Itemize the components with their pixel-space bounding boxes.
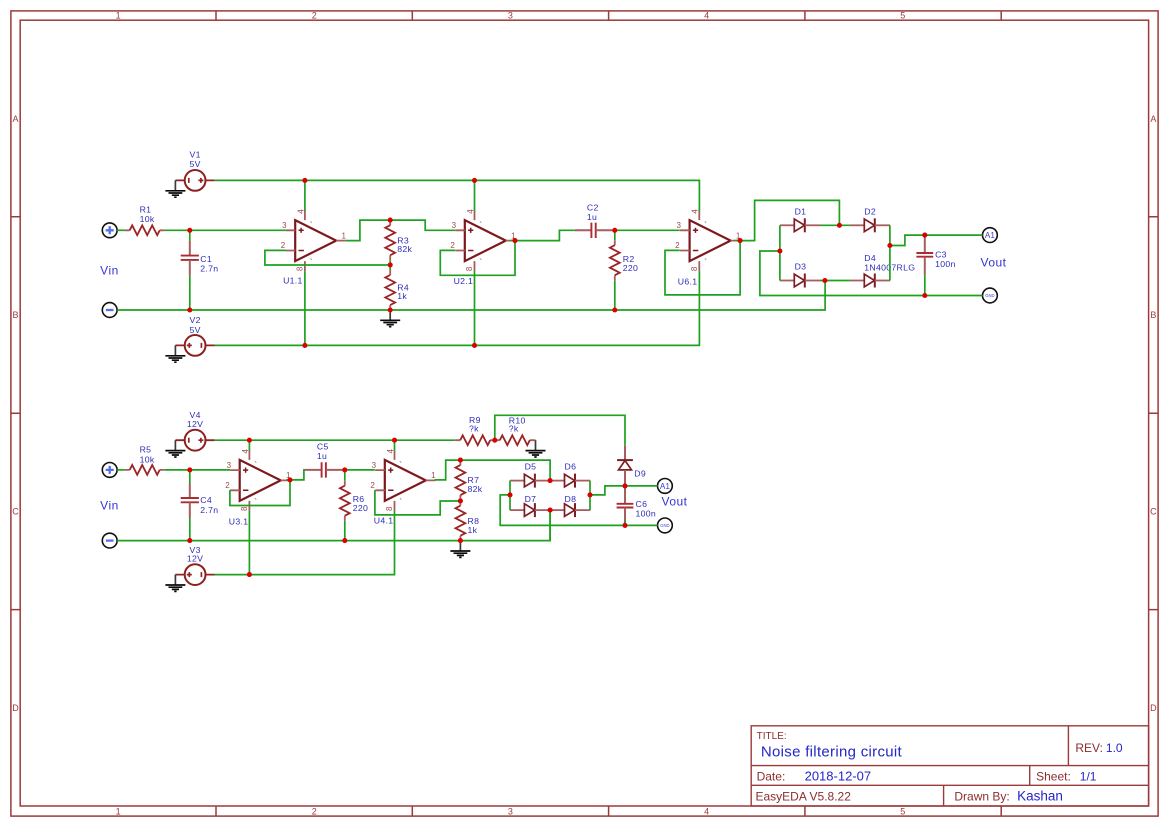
resistor R8 — [456, 501, 466, 541]
diode D2 — [850, 218, 890, 232]
junction lower bridge left node — [507, 492, 512, 497]
svg-text:5V: 5V — [189, 325, 200, 335]
resistor R2 — [610, 240, 620, 280]
capacitor C1 — [181, 241, 199, 276]
diode D6 — [550, 474, 590, 488]
ground at R10 — [526, 440, 546, 457]
resistor R10 — [495, 435, 535, 445]
junction dots circuit1 — [187, 178, 927, 348]
junction C3 bottom / GND rail — [922, 293, 927, 298]
svg-text:1/1: 1/1 — [1080, 770, 1097, 784]
diode D7 — [510, 503, 550, 517]
CIRCUIT1 — [100, 150, 1006, 362]
capacitor C3 — [916, 235, 933, 275]
wire R9/R10 node to D9 top — [495, 415, 625, 445]
junction D7/D8 node — [548, 508, 553, 513]
wire U4.1 feedback to R7/R8 node — [375, 490, 461, 515]
terminal GND lower — [658, 518, 673, 533]
svg-text:1k: 1k — [468, 525, 478, 535]
wire Vin- rail to D3/D4 node — [117, 281, 825, 311]
svg-text:U1.1: U1.1 — [283, 275, 303, 285]
diode D9 — [617, 445, 633, 486]
link R10 to ground — [534, 439, 537, 441]
svg-text:C5: C5 — [317, 442, 329, 452]
op-amp U2.1 — [450, 209, 516, 271]
svg-text:D: D — [1150, 703, 1157, 713]
svg-text:R5: R5 — [140, 444, 152, 454]
svg-text:U3.1: U3.1 — [229, 517, 249, 527]
svg-text:82k: 82k — [468, 484, 483, 494]
wire C5 to R6 and U4.1 pin3 — [345, 469, 375, 471]
junction R8 bottom / Vin- rail — [458, 538, 463, 543]
diode D8 — [550, 503, 590, 517]
ground at V2 — [165, 345, 185, 362]
junction C3 top — [922, 233, 927, 238]
wire U3.1 pin8 down — [248, 511, 250, 575]
wire rectifier output to C3 and A1 terminal — [890, 235, 983, 245]
svg-text:100n: 100n — [636, 508, 657, 518]
svg-text:Vin: Vin — [100, 498, 119, 512]
wire R3 bottom to R4 top — [389, 260, 391, 270]
svg-text:1.0: 1.0 — [1106, 741, 1123, 755]
terminal Vin- — [102, 303, 117, 318]
junction D3/D4 node — [822, 278, 827, 283]
svg-text:?k: ?k — [509, 423, 519, 433]
junction lower bridge top mid D5/D6 — [548, 478, 553, 483]
svg-text:V2: V2 — [189, 315, 200, 325]
svg-text:Kashan: Kashan — [1017, 788, 1063, 803]
junction V3 rail / U3.1 pin8 — [247, 572, 252, 577]
svg-text:1u: 1u — [317, 451, 327, 461]
junction R5-C4-U3.1 — [187, 467, 192, 472]
junction R3/R4 feedback node — [388, 262, 393, 267]
svg-text:1k: 1k — [397, 291, 407, 301]
ground at R4 — [380, 310, 400, 327]
svg-text:C4: C4 — [200, 495, 212, 505]
wire lower bridge right vertical D6-D8 — [589, 481, 591, 511]
ground at V4 — [165, 440, 185, 457]
diode D4 — [850, 274, 890, 288]
wire C1 bottom — [189, 276, 191, 310]
svg-text:D9: D9 — [634, 469, 646, 479]
terminal Vin+ — [102, 223, 117, 238]
svg-text:Date:: Date: — [757, 770, 786, 784]
wire U3.1 feedback loop — [230, 480, 290, 506]
resistor R5 — [125, 465, 165, 475]
svg-text:Vin: Vin — [100, 264, 119, 278]
wire U3.1 output to C5 — [286, 470, 305, 480]
wire R2 bottom — [614, 280, 616, 310]
svg-text:82k: 82k — [397, 244, 412, 254]
junction bridge top mid D1/D2 — [837, 223, 842, 228]
junction top rail / U2.1 pin4 — [472, 178, 477, 183]
diode D1 — [780, 218, 820, 232]
svg-text:B: B — [1150, 310, 1156, 320]
junction R1-C1-U1.1 — [187, 228, 192, 233]
wire U2.1 feedback loop — [440, 241, 515, 276]
junction lower bridge right node — [587, 492, 592, 497]
resistor R9 — [455, 435, 495, 445]
ground at R8 — [450, 541, 470, 558]
wire C4 top — [189, 470, 191, 483]
capacitor C2 — [575, 223, 615, 238]
svg-text:4: 4 — [704, 11, 709, 21]
junction C2 / R2 — [612, 228, 617, 233]
junction U3.1 output — [287, 477, 292, 482]
svg-text:U2.1: U2.1 — [454, 276, 474, 286]
op-amp U4.1 — [370, 449, 436, 511]
svg-text:Noise filtering circuit: Noise filtering circuit — [761, 744, 903, 761]
junction top rail / U1.1 pin4 — [302, 178, 307, 183]
junction dots circuit2 — [187, 438, 627, 577]
wire C4 bottom — [189, 518, 191, 541]
diode D5 — [510, 474, 550, 488]
svg-text:?k: ?k — [469, 423, 479, 433]
svg-text:5V: 5V — [189, 159, 200, 169]
junction rectifier output node — [887, 243, 892, 248]
wire U3.1 pin4 drop — [248, 440, 250, 450]
terminal A1 lower — [658, 479, 673, 494]
wire C2 to R2 and U6.1 pin3 — [615, 229, 680, 231]
junction D9/C6/A1 node — [622, 483, 627, 488]
junction R6 bottom / Vin- rail — [342, 538, 347, 543]
wire Vin+ terminal to R5 — [117, 469, 125, 471]
svg-text:C2: C2 — [587, 202, 599, 212]
wire Vin- rail to D7/D8 node — [117, 510, 550, 540]
op-amp U6.1 — [675, 209, 741, 271]
wire C6 bottom — [624, 521, 626, 526]
junction Vin- / C4 — [187, 538, 192, 543]
svg-text:D3: D3 — [795, 262, 807, 272]
svg-text:TITLE:: TITLE: — [757, 731, 787, 742]
junction V4 rail / U3.1 pin4 — [247, 438, 252, 443]
wire U4.1 pin4 drop — [394, 440, 396, 450]
voltage source V3 — [175, 564, 214, 585]
wire D7/D8 node down to Vin- rail — [549, 510, 551, 540]
CIRCUIT2 — [100, 410, 687, 591]
svg-text:10k: 10k — [140, 214, 155, 224]
svg-text:A1: A1 — [660, 482, 670, 491]
svg-text:1: 1 — [116, 11, 121, 21]
op-amp U3.1 — [225, 449, 291, 511]
svg-text:Sheet:: Sheet: — [1036, 770, 1071, 784]
wire V2 rail to U6.1 pin8 — [215, 271, 700, 345]
svg-text:U6.1: U6.1 — [678, 277, 698, 287]
junction R2 bottom / Vin- rail — [612, 307, 617, 312]
terminal GND — [983, 288, 998, 303]
svg-text:C: C — [1150, 507, 1157, 517]
svg-text:100n: 100n — [935, 259, 956, 269]
capacitor C5 — [305, 462, 345, 477]
svg-text:D5: D5 — [525, 462, 537, 472]
wire U1.1 output to R3 top and U2.1 pin3 — [346, 220, 455, 241]
junction R7/R8 feedback node — [458, 498, 463, 503]
wire U2.1 output to C2 — [510, 230, 575, 240]
svg-text:5: 5 — [900, 11, 905, 21]
svg-text:2: 2 — [312, 11, 317, 21]
svg-text:D1: D1 — [795, 206, 807, 216]
svg-text:220: 220 — [353, 503, 368, 513]
wire U2.1 pin8 down — [474, 271, 476, 345]
wire U1.1 pin8 down — [304, 271, 306, 345]
wire V3 rail to U4.1 pin8 — [215, 511, 395, 575]
wire C3 bottom — [924, 275, 926, 296]
voltage source V4 — [175, 430, 214, 451]
terminal Vin- lower — [102, 533, 117, 548]
wire Vin+ terminal to R1 — [117, 229, 125, 231]
junction V2 rail / U1.1 pin8 — [302, 343, 307, 348]
svg-text:GND: GND — [985, 293, 994, 298]
svg-text:B: B — [12, 310, 18, 320]
wire U6.1 output to bridge top node — [735, 200, 839, 240]
diode D3 — [780, 274, 820, 288]
svg-text:1u: 1u — [587, 212, 597, 222]
wire R2 top — [614, 230, 616, 240]
svg-text:R1: R1 — [140, 204, 152, 214]
svg-text:10k: 10k — [140, 454, 155, 464]
wire U1.1 pin4 drop — [304, 180, 306, 210]
junction R9/R10 divider node — [492, 438, 497, 443]
capacitor C4 — [181, 483, 199, 518]
wire V+ rail from V1 to U6.1 pin4 — [215, 180, 700, 210]
ground at V3 — [165, 575, 185, 592]
svg-text:2018-12-07: 2018-12-07 — [805, 769, 872, 784]
svg-text:Vout: Vout — [980, 255, 1006, 269]
voltage source V1 — [175, 170, 214, 191]
wire lower rectifier output to D9/C6 node and A1 terminal — [590, 486, 658, 495]
junction V4 rail / U4.1 pin4 — [392, 438, 397, 443]
wire V4 rail to R9 — [215, 439, 455, 441]
wire D3 to D4 — [820, 280, 850, 282]
junction R4 bottom / Vin- rail — [388, 307, 393, 312]
wire bridge left vertical D1-D3 — [779, 225, 781, 280]
svg-text:D7: D7 — [525, 494, 537, 504]
svg-text:A1: A1 — [985, 231, 995, 240]
svg-text:Drawn By:: Drawn By: — [954, 789, 1009, 803]
wire C1 top — [189, 230, 191, 240]
svg-text:D6: D6 — [565, 462, 577, 472]
svg-text:C6: C6 — [636, 499, 648, 509]
wire U2.1 pin4 drop — [474, 180, 476, 210]
svg-text:U4.1: U4.1 — [374, 516, 394, 526]
wire R5 to C4 and U3.1 pin3 — [165, 469, 230, 471]
capacitor C6 — [617, 486, 634, 526]
svg-text:C: C — [12, 507, 19, 517]
junction V2 rail / U2.1 pin8 — [472, 343, 477, 348]
svg-text:V1: V1 — [189, 150, 200, 160]
wire U6.1 feedback loop — [665, 241, 740, 295]
svg-text:A: A — [12, 114, 18, 124]
svg-text:A: A — [1150, 114, 1156, 124]
svg-text:5: 5 — [900, 806, 905, 816]
svg-text:D2: D2 — [864, 206, 876, 216]
svg-text:Vout: Vout — [661, 494, 687, 508]
voltage source V2 — [175, 335, 214, 356]
svg-text:REV:: REV: — [1075, 741, 1103, 755]
resistor R1 — [125, 225, 165, 235]
junction C6 bottom / GND rail — [622, 523, 627, 528]
wire R6 top — [344, 470, 346, 481]
wire U4.1 output to R7 top and bridge top node — [435, 460, 550, 481]
resistor R4 — [385, 270, 395, 310]
wire bridge left node to GND rail and GND terminal — [760, 251, 983, 296]
junction C5 / R6 — [342, 467, 347, 472]
wire lower bridge left vertical D5-D7 — [509, 481, 511, 511]
svg-text:2.7n: 2.7n — [200, 505, 218, 515]
wire U1.1 feedback pin2 to R3/R4 node — [265, 250, 390, 265]
TITLE BLOCK — [751, 726, 1148, 806]
wire R1 to C1 and U1.1 pin3 — [165, 229, 286, 231]
svg-text:1: 1 — [116, 806, 121, 816]
resistor R7 — [456, 460, 466, 500]
ground at V1 — [165, 180, 185, 197]
junction R7 top — [458, 458, 463, 463]
wire bridge right vertical D2-D4 — [889, 225, 891, 280]
svg-text:D: D — [12, 703, 19, 713]
junction bridge left node — [777, 248, 782, 253]
svg-text:GND: GND — [660, 523, 669, 528]
wire D1 to D2 — [820, 224, 850, 226]
svg-text:12V: 12V — [187, 419, 203, 429]
svg-text:3: 3 — [508, 11, 513, 21]
svg-text:12V: 12V — [187, 554, 203, 564]
junction U2.1 output — [512, 238, 517, 243]
resistor R3 — [385, 220, 395, 260]
svg-text:EasyEDA V5.8.22: EasyEDA V5.8.22 — [756, 789, 852, 803]
svg-text:220: 220 — [623, 263, 638, 273]
op-amp U1.1 — [281, 209, 347, 271]
junction R3 top — [388, 218, 393, 223]
svg-text:D8: D8 — [565, 494, 577, 504]
svg-text:4: 4 — [704, 806, 709, 816]
wire R6 bottom — [344, 521, 346, 541]
svg-text:3: 3 — [508, 806, 513, 816]
terminal Vin+ lower — [102, 463, 117, 478]
terminal A1 — [983, 228, 998, 243]
svg-text:2: 2 — [312, 806, 317, 816]
svg-text:2.7n: 2.7n — [200, 263, 218, 273]
wire lower bridge left node to GND rail and GND terminal — [500, 495, 657, 526]
junction U6.1 output — [738, 238, 743, 243]
junction Vin- / C1 — [187, 307, 192, 312]
resistor R6 — [340, 481, 350, 521]
